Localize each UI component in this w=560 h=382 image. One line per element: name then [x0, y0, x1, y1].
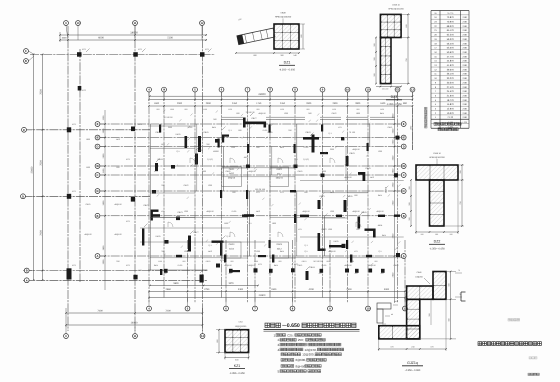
svg-text:E: E: [97, 123, 99, 126]
svg-text:350: 350: [161, 250, 164, 253]
svg-text:8d14: 8d14: [280, 250, 284, 253]
svg-text:DZ2: DZ2: [434, 240, 441, 244]
svg-text:7.170: 7.170: [447, 116, 453, 119]
svg-text:2000: 2000: [177, 102, 183, 105]
svg-text:300: 300: [459, 170, 462, 173]
svg-text:4d12: 4d12: [370, 176, 374, 179]
svg-text:950: 950: [157, 108, 160, 111]
dimension lines left vertical 23600: [33, 54, 35, 280]
column grid line vb2 lower: [225, 240, 227, 303]
svg-text:185 28 185: 185 28 185: [255, 188, 266, 191]
column below grid F: [78, 86, 82, 91]
svg-text:GBZ5: GBZ5: [226, 170, 231, 173]
svg-text:d8@150: d8@150: [352, 210, 359, 213]
svg-text:GBZ2: GBZ2: [332, 112, 337, 115]
svg-text:36.170: 36.170: [447, 73, 455, 76]
svg-text:350: 350: [206, 143, 209, 146]
svg-text:8d14: 8d14: [212, 126, 216, 129]
grid row r6 middle band: [98, 190, 404, 192]
grid row r3 middle band: [98, 146, 404, 148]
svg-text:0.425: 0.425: [263, 129, 268, 132]
svg-text:250: 250: [116, 260, 119, 263]
column: [342, 244, 346, 248]
svg-text:600: 600: [116, 166, 119, 169]
svg-text:33.270: 33.270: [447, 77, 455, 80]
svg-text:1450: 1450: [380, 108, 384, 111]
extra columns along bottom wall row: [164, 269, 168, 273]
column grid line axis 1 vertical: [67, 26, 69, 331]
shear wall vertical: [373, 229, 376, 238]
svg-text:GBZ2: GBZ2: [184, 184, 189, 187]
column grid line v11 middle band: [397, 92, 399, 303]
column KZ1 top row: [133, 52, 138, 57]
svg-text:4d12: 4d12: [330, 191, 334, 194]
svg-text:240: 240: [411, 345, 414, 348]
svg-text:53.570: 53.570: [447, 47, 455, 50]
svg-text:0.425: 0.425: [175, 133, 181, 136]
svg-text:380: 380: [448, 318, 451, 321]
svg-text:A: A: [26, 279, 28, 282]
svg-text:23600: 23600: [30, 166, 33, 173]
drawing title: [265, 323, 269, 327]
svg-text:22800: 22800: [258, 93, 266, 96]
svg-text:2600: 2600: [346, 288, 352, 291]
svg-text:300: 300: [408, 186, 411, 189]
svg-text:E: E: [403, 123, 405, 126]
column grid line v12 middle band: [412, 92, 414, 150]
column: [216, 264, 220, 268]
svg-text:d8@100: d8@100: [114, 233, 121, 236]
svg-text:1200: 1200: [208, 184, 212, 187]
column: [291, 268, 295, 272]
svg-text:GBZ3: GBZ3: [206, 260, 211, 263]
shear wall horizontal: [212, 241, 224, 243]
svg-text:2900: 2900: [332, 102, 338, 105]
svg-text:7400: 7400: [97, 310, 103, 313]
dimension line mid-left vertical: [104, 110, 106, 290]
svg-text:22800: 22800: [259, 294, 266, 297]
svg-text:950: 950: [257, 108, 260, 111]
axis bubbles left column: [24, 49, 29, 54]
svg-text:370: 370: [430, 345, 433, 348]
svg-text:4200: 4200: [309, 288, 315, 291]
svg-text:4d12: 4d12: [394, 300, 398, 303]
grid row B horizontal: [23, 270, 207, 272]
svg-text:10: 10: [77, 22, 80, 25]
svg-text:450: 450: [355, 272, 358, 275]
svg-text:D: D: [403, 146, 405, 149]
svg-text:1200: 1200: [378, 150, 382, 153]
svg-text:300: 300: [435, 233, 438, 236]
svg-text:300: 300: [408, 202, 411, 205]
svg-text:d8@150: d8@150: [258, 112, 265, 115]
column small: [171, 165, 175, 169]
svg-text:12: 12: [411, 89, 414, 92]
svg-text:4d12: 4d12: [382, 323, 386, 326]
svg-text:d8@150: d8@150: [344, 264, 351, 267]
svg-text:300: 300: [448, 283, 451, 286]
svg-text:8d14: 8d14: [380, 112, 384, 115]
svg-text:18.770: 18.770: [447, 99, 455, 102]
svg-text:14000: 14000: [131, 322, 139, 325]
bracket mark: [460, 292, 462, 301]
small opening arcs (doors): [230, 158, 235, 163]
svg-text:C8d8: C8d8: [281, 12, 287, 15]
svg-text:1800: 1800: [86, 138, 90, 141]
svg-text:GJZ1q: GJZ1q: [407, 361, 418, 365]
svg-text:KZ1: KZ1: [234, 364, 241, 368]
svg-text:GBZ2: GBZ2: [394, 264, 399, 267]
svg-text:2900: 2900: [206, 102, 212, 105]
shear wall corner L leg: [222, 135, 224, 143]
grid row r2 middle band: [98, 137, 404, 139]
column axis1 row E: [67, 127, 71, 132]
svg-text:8d14: 8d14: [280, 146, 284, 149]
svg-text:GBZ7: GBZ7: [251, 117, 257, 120]
grid row r7 middle band: [98, 215, 404, 217]
column grid line vb4 lower: [292, 240, 294, 303]
svg-text:2000: 2000: [322, 170, 326, 173]
svg-text:d8@150: d8@150: [352, 148, 359, 151]
column grid line v5 middle band: [247, 92, 249, 303]
svg-text:2000: 2000: [330, 148, 334, 151]
svg-text:4790: 4790: [204, 288, 210, 291]
svg-text:21.670: 21.670: [447, 94, 455, 97]
column grid line v7 middle band: [294, 92, 296, 303]
svg-text:GBZ1: GBZ1: [394, 176, 399, 179]
column small: [176, 217, 180, 221]
svg-text:600: 600: [356, 228, 359, 231]
svg-text:KZ1: KZ1: [298, 228, 301, 231]
svg-text:GBZ3: GBZ3: [229, 243, 235, 246]
svg-text:12@200,: 12@200,: [302, 353, 314, 357]
grid row r4 middle band: [98, 165, 404, 167]
shear wall vertical: [195, 154, 198, 165]
svg-text:d8@150: d8@150: [302, 210, 309, 213]
interior partition double lines: [248, 124, 250, 166]
svg-text:0.425: 0.425: [178, 264, 183, 267]
partial grid row: [140, 241, 265, 243]
svg-text:27.470: 27.470: [447, 86, 455, 89]
column at v2 row E: [131, 127, 135, 132]
column grid line vb5 lower: [329, 240, 331, 303]
svg-text:7400: 7400: [39, 230, 42, 236]
svg-text:300: 300: [373, 73, 376, 76]
axis bubbles mid-left column: [95, 122, 100, 127]
title block faint text: [508, 319, 510, 321]
svg-text:1800: 1800: [272, 222, 276, 225]
svg-text:450: 450: [229, 272, 232, 275]
svg-text:76.770: 76.770: [447, 12, 454, 15]
svg-text:600: 600: [405, 24, 408, 27]
svg-text:GBZ5: GBZ5: [86, 203, 91, 206]
svg-text:14000: 14000: [130, 31, 138, 34]
axis bubbles top-left row: [64, 21, 69, 26]
grid row A horizontal: [23, 279, 207, 281]
svg-text:1250: 1250: [228, 108, 232, 111]
svg-text:4d12: 4d12: [277, 247, 283, 250]
svg-text:7500: 7500: [39, 160, 42, 166]
auxiliary rebar sketch: [377, 303, 391, 309]
wall outline double lines block perimeter: [150, 124, 152, 270]
svg-text:d8@15: d8@15: [276, 177, 284, 180]
column grid line v1 middle band: [148, 92, 150, 303]
svg-text:4d12: 4d12: [277, 172, 283, 175]
wall parallel lines along rows: [150, 217, 248, 219]
svg-text:1200: 1200: [254, 260, 258, 263]
shear wall end cap: [264, 122, 267, 128]
shear wall vertical: [346, 156, 349, 166]
svg-text:1600: 1600: [154, 102, 160, 105]
svg-text:40000: 40000: [213, 150, 219, 153]
svg-text:900: 900: [213, 118, 216, 121]
column grid line v10 middle band: [367, 92, 369, 298]
svg-text:450: 450: [319, 272, 322, 275]
svg-text:1200: 1200: [184, 210, 188, 213]
svg-text:0.425: 0.425: [232, 210, 237, 213]
dimension line right vertical 15400: [394, 96, 396, 303]
column small: [396, 136, 400, 140]
grid row D horizontal: [23, 195, 150, 197]
label box GBZ2: [270, 167, 289, 186]
shear wall horizontal: [244, 122, 266, 125]
svg-text:1750: 1750: [256, 102, 262, 105]
svg-text:600: 600: [304, 191, 307, 194]
svg-text:70 100: 70 100: [349, 131, 356, 134]
column KZ1 top row: [77, 52, 82, 57]
title block sheet id: [528, 373, 530, 375]
svg-text:HPB10@100/200: HPB10@100/200: [275, 16, 292, 19]
svg-text:950: 950: [279, 260, 282, 263]
svg-text:950: 950: [185, 108, 188, 111]
svg-text:4.320: 4.320: [462, 121, 467, 124]
svg-text:600: 600: [354, 194, 357, 197]
shear wall vertical: [218, 139, 220, 148]
svg-text:350: 350: [428, 313, 431, 316]
svg-text:950: 950: [375, 260, 378, 263]
svg-text:Q-1(2): Q-1(2): [303, 158, 309, 161]
svg-text:8d14: 8d14: [154, 264, 158, 267]
svg-text:GBZ5: GBZ5: [298, 170, 303, 173]
column grid line v9 middle band: [347, 92, 349, 303]
shear wall corner L: [151, 210, 153, 221]
svg-text:d8@150: d8@150: [206, 210, 213, 213]
svg-text:E: E: [23, 129, 25, 132]
svg-text:450: 450: [269, 272, 272, 275]
svg-text:250: 250: [288, 129, 291, 132]
svg-text:900: 900: [308, 112, 311, 115]
svg-text:/C: /C: [96, 190, 99, 193]
svg-text:A: A: [97, 255, 99, 258]
svg-text:/E: /E: [96, 137, 99, 140]
svg-text:Q-1: Q-1: [176, 150, 179, 153]
svg-text:70: 70: [458, 269, 460, 272]
svg-text:GBZ5: GBZ5: [365, 167, 371, 170]
svg-text:200: 200: [421, 233, 424, 236]
svg-text:370: 370: [390, 345, 393, 348]
svg-text:C: C: [97, 174, 99, 177]
svg-text:30.370: 30.370: [447, 81, 455, 84]
svg-text:1200: 1200: [284, 112, 288, 115]
svg-text:d8@150: d8@150: [114, 203, 121, 206]
column grid line v6 middle band: [269, 92, 271, 298]
shear wall corner top: [151, 210, 159, 212]
svg-text:3000: 3000: [384, 288, 390, 291]
svg-text:950: 950: [327, 260, 330, 263]
svg-text:50.670: 50.670: [447, 51, 455, 54]
svg-text:2900: 2900: [306, 102, 312, 105]
svg-text:0.425: 0.425: [197, 149, 203, 152]
svg-text:GBZ3: GBZ3: [177, 211, 183, 214]
svg-text:/E: /E: [402, 137, 405, 140]
column axis1 row D: [67, 194, 71, 199]
svg-text:10@100/200: 10@100/200: [235, 325, 247, 328]
axis bubbles right column: [401, 122, 406, 127]
title block drawing name: [478, 342, 482, 346]
label box GBZ4: [270, 242, 289, 258]
svg-text:KZ1: KZ1: [338, 126, 341, 129]
svg-text:10.070: 10.070: [447, 112, 455, 115]
column small: [165, 240, 169, 244]
svg-text:2860: 2860: [166, 288, 172, 291]
svg-text:Q-1: Q-1: [304, 250, 307, 253]
svg-text:3300: 3300: [271, 288, 277, 291]
svg-text:~-0.650: ~-0.650: [282, 323, 300, 329]
svg-text:1200: 1200: [256, 250, 260, 253]
svg-text:12: 12: [201, 335, 204, 338]
svg-text:450: 450: [164, 272, 167, 275]
label box GBZ3: [222, 242, 241, 258]
svg-text:300: 300: [408, 217, 411, 220]
svg-text:4d12: 4d12: [116, 138, 120, 141]
svg-text:10@200: 10@200: [415, 275, 423, 278]
svg-text:10: 10: [346, 89, 349, 92]
svg-text:C8d: C8d: [239, 321, 243, 324]
svg-text:450: 450: [381, 272, 384, 275]
svg-text:C8d8 10: C8d8 10: [392, 4, 400, 7]
svg-text:0.425: 0.425: [333, 240, 339, 243]
svg-text:-4.350~-0.650: -4.350~-0.650: [429, 248, 445, 251]
column grid line axis 1a vertical: [79, 49, 81, 282]
svg-text:-4.350~-0.650: -4.350~-0.650: [405, 369, 421, 372]
svg-text:KZ1: KZ1: [280, 191, 283, 194]
svg-text:950: 950: [231, 260, 234, 263]
svg-text:7500: 7500: [39, 89, 42, 95]
svg-text:HPB10@100/200: HPB10@100/200: [388, 8, 404, 11]
svg-text:0.425: 0.425: [304, 146, 309, 149]
svg-text:200: 200: [450, 233, 453, 236]
shear wall vertical: [318, 233, 321, 251]
svg-text:4d12: 4d12: [208, 250, 212, 253]
svg-text:1250: 1250: [332, 108, 336, 111]
svg-text:KZ1: KZ1: [161, 210, 164, 213]
shear wall corner L: [222, 135, 229, 137]
shear wall vertical: [155, 163, 158, 171]
dimension line top-left 14000: [60, 34, 207, 36]
shear wall horizontal: [303, 137, 319, 140]
column bottom row: [200, 275, 204, 283]
svg-text:Q-1: Q-1: [248, 222, 251, 225]
svg-text:62.270: 62.270: [447, 34, 455, 37]
grid row E horizontal: [23, 129, 150, 131]
svg-text:1600: 1600: [380, 102, 386, 105]
dimension lines middle top 22800: [150, 95, 413, 97]
svg-text:44.870: 44.870: [447, 60, 455, 63]
column bottom row: [133, 275, 137, 280]
grid row r5 middle band: [98, 174, 404, 176]
svg-text:2800: 2800: [355, 102, 361, 105]
svg-text:-4.350~-0.650: -4.350~-0.650: [229, 372, 245, 375]
shear wall vertical: [188, 236, 191, 252]
svg-text:/F: /F: [25, 60, 28, 63]
svg-text:600: 600: [236, 112, 239, 115]
svg-text:600: 600: [238, 129, 241, 132]
svg-text:8d14: 8d14: [378, 194, 382, 197]
svg-text:1500: 1500: [202, 170, 206, 173]
svg-text:1000: 1000: [62, 37, 68, 40]
column grid line vb6 lower: [404, 240, 406, 303]
svg-text:65.170: 65.170: [447, 29, 455, 32]
svg-text:0.425: 0.425: [322, 264, 327, 267]
svg-text:300: 300: [373, 57, 376, 60]
svg-text:d8@150: d8@150: [376, 210, 383, 213]
svg-text:d8: d8: [391, 313, 393, 316]
dim line right of top-right bubble to DZ2: [412, 108, 414, 150]
svg-text:KZ1: KZ1: [256, 191, 259, 194]
svg-text:-4.350~-0.650: -4.350~-0.650: [386, 103, 402, 106]
table caption line1: [434, 122, 437, 125]
dimension lines bottom middle: [150, 285, 258, 287]
svg-text:B: B: [403, 215, 405, 218]
column grid line vb1 lower: [187, 240, 189, 303]
axis bubbles bottom left row: [64, 334, 69, 339]
svg-text:39.070: 39.070: [447, 68, 455, 71]
svg-text:0.425: 0.425: [155, 235, 161, 238]
svg-text:70.970: 70.970: [447, 21, 455, 24]
svg-text:d8@100: d8@100: [248, 264, 255, 267]
svg-text:73.870: 73.870: [447, 16, 455, 19]
shear wall vertical: [185, 136, 188, 148]
svg-text:59.370: 59.370: [447, 38, 455, 41]
svg-text:3300: 3300: [238, 288, 244, 291]
wall parallel lines along columns: [196, 124, 198, 191]
svg-text:4d12: 4d12: [256, 210, 260, 213]
svg-text:1200: 1200: [328, 228, 332, 231]
svg-text:2000: 2000: [168, 126, 172, 129]
svg-text:56.470: 56.470: [447, 42, 455, 45]
svg-text:GBZ9: GBZ9: [349, 152, 355, 155]
svg-text:1200: 1200: [330, 210, 334, 213]
shear wall vertical: [220, 241, 222, 256]
shear wall vertical: [358, 217, 361, 229]
svg-text:GBZ2: GBZ2: [143, 204, 149, 207]
svg-text:47.770: 47.770: [447, 55, 455, 58]
shear wall vertical: [312, 135, 315, 153]
svg-text:B: B: [26, 270, 28, 273]
svg-text:150 200: 150 200: [382, 87, 389, 90]
svg-text:1800: 1800: [356, 112, 360, 115]
additional shear wall fills: [159, 125, 161, 133]
svg-text:6000: 6000: [98, 37, 104, 40]
column: [254, 268, 258, 272]
title block sheet number light: [529, 357, 531, 359]
svg-text:600: 600: [256, 146, 259, 149]
svg-text:Q-1(2): Q-1(2): [207, 158, 213, 161]
partial grid row: [300, 180, 404, 182]
svg-text:70 100 70: 70 100 70: [246, 111, 256, 114]
svg-text:D: D: [22, 195, 24, 198]
partial grid row: [300, 236, 404, 238]
